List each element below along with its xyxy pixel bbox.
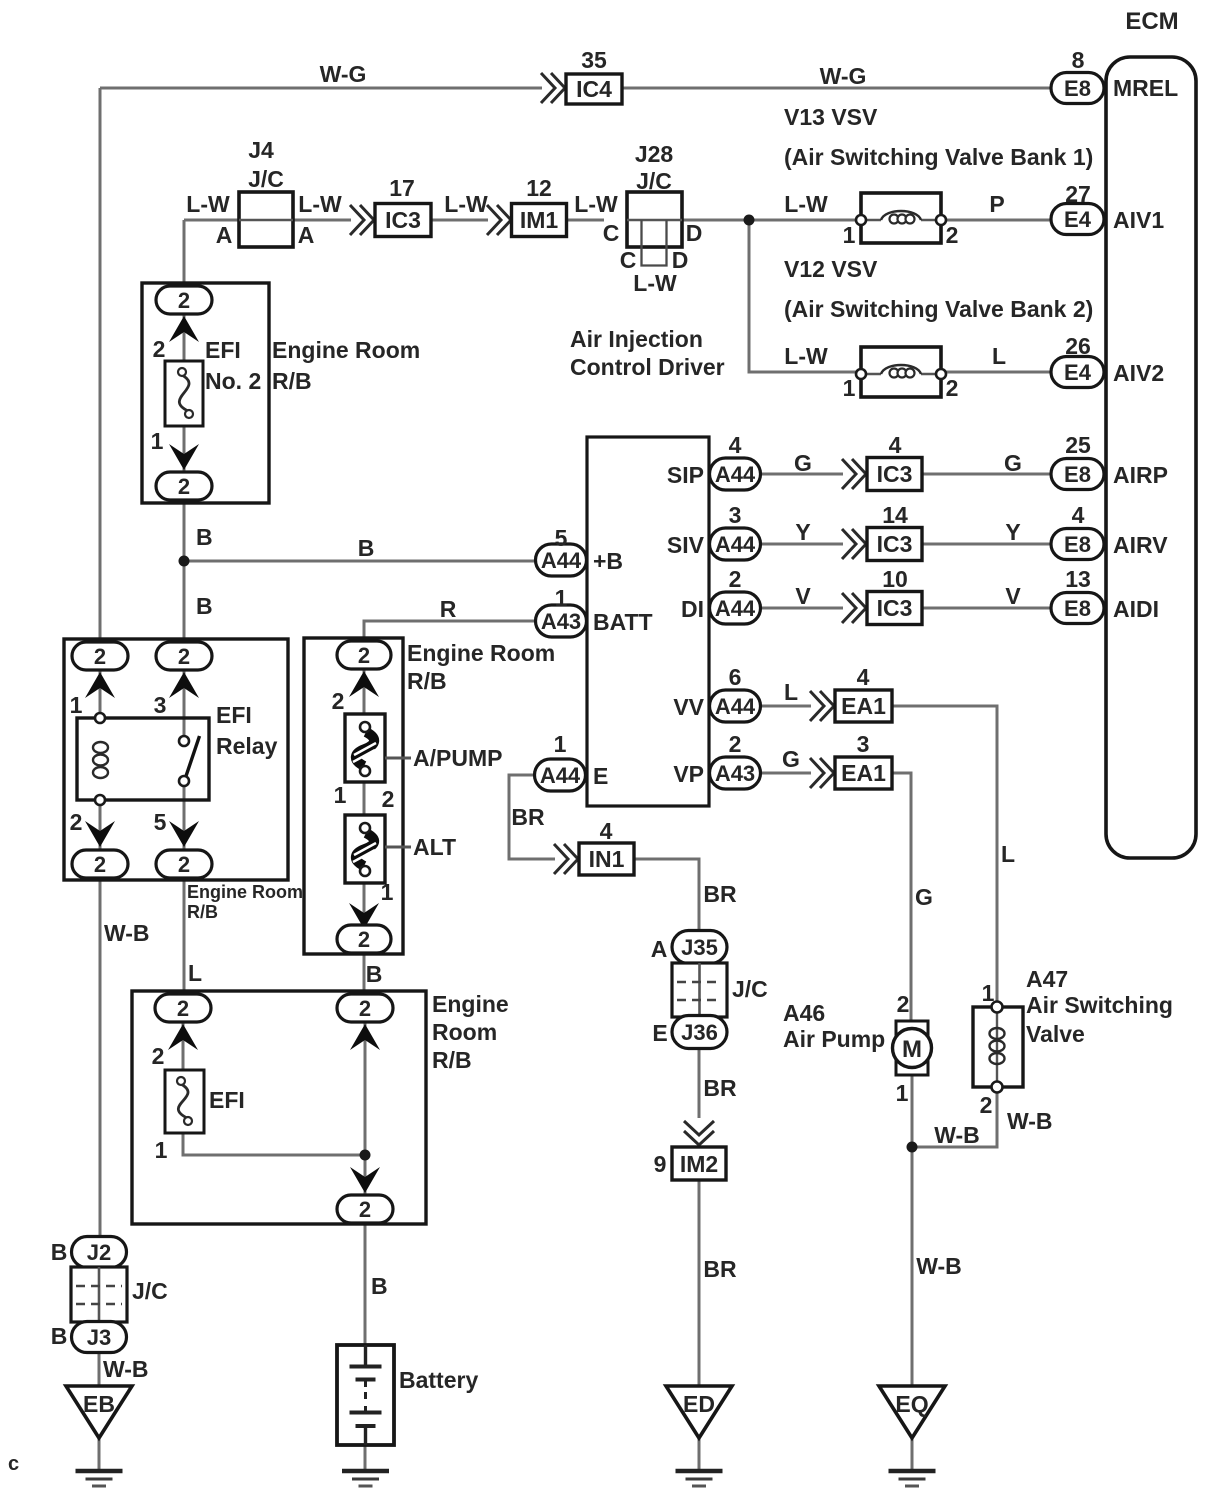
svg-text:35: 35: [581, 47, 607, 73]
svg-text:A44: A44: [715, 462, 756, 487]
connector IM2 pin 9: [654, 1121, 726, 1180]
svg-text:6: 6: [729, 664, 742, 690]
svg-text:IM1: IM1: [520, 207, 559, 233]
ground symbol ED: [676, 1469, 723, 1474]
svg-text:E4: E4: [1064, 207, 1092, 232]
svg-text:1: 1: [381, 879, 394, 905]
svg-text:3: 3: [154, 692, 167, 718]
svg-text:2: 2: [178, 288, 190, 313]
svg-text:Engine Room: Engine Room: [187, 882, 303, 902]
wire W-B: J3 to EB ground: [99, 1351, 149, 1471]
svg-text:1: 1: [843, 375, 856, 401]
svg-text:P: P: [989, 191, 1004, 217]
wire branch to V12 VSV: [749, 220, 1051, 372]
svg-text:2: 2: [152, 1043, 165, 1069]
svg-text:2: 2: [359, 1197, 371, 1222]
svg-text:5: 5: [555, 525, 568, 551]
svg-text:G: G: [1004, 450, 1022, 476]
svg-text:G: G: [915, 884, 933, 910]
connector A44 pin 3 (SIV): [710, 502, 761, 560]
connector E8 pin 13 AIDI: [1051, 566, 1159, 624]
svg-text:2: 2: [178, 852, 190, 877]
junction connector J28 J/C: [603, 141, 703, 296]
svg-text:2: 2: [980, 1092, 993, 1118]
fuse block Engine Room R/B with EFI fuse: [132, 991, 509, 1224]
ground ED: [666, 1386, 732, 1438]
svg-text:1: 1: [155, 1137, 168, 1163]
connector A44 pin 4 (SIP): [710, 432, 761, 490]
svg-text:1: 1: [70, 692, 83, 718]
svg-text:G: G: [782, 746, 800, 772]
svg-text:2: 2: [178, 474, 190, 499]
svg-text:2: 2: [70, 809, 83, 835]
svg-text:ALT: ALT: [413, 834, 456, 860]
svg-text:R/B: R/B: [272, 368, 312, 394]
svg-text:1: 1: [843, 222, 856, 248]
ground EB: [66, 1386, 132, 1438]
svg-text:Relay: Relay: [216, 733, 278, 759]
svg-text:1: 1: [896, 1080, 909, 1106]
svg-text:5: 5: [154, 809, 167, 835]
svg-text:1: 1: [334, 782, 347, 808]
junction connector J3: [51, 1322, 127, 1353]
svg-text:A46: A46: [783, 1000, 825, 1026]
svg-text:3: 3: [857, 731, 870, 757]
svg-text:L-W: L-W: [784, 343, 828, 369]
wire EQ ground lead: [911, 1438, 914, 1471]
svg-text:Air Pump: Air Pump: [783, 1026, 885, 1052]
svg-text:L: L: [784, 679, 798, 705]
ground symbol below battery: [342, 1469, 389, 1474]
svg-text:R: R: [440, 596, 457, 622]
connector A44 pin 1 (E): [535, 731, 586, 791]
svg-text:W-B: W-B: [103, 1356, 149, 1382]
svg-text:2: 2: [729, 731, 742, 757]
solenoid V13 VSV (Air Switching Valve Bank 1): [784, 104, 1093, 248]
wire BR: J36 to IM2 to ED: [699, 1048, 737, 1386]
svg-text:2: 2: [332, 688, 345, 714]
svg-text:BR: BR: [703, 1075, 737, 1101]
connector A44 pin 2 (DI): [710, 566, 761, 624]
svg-text:Y: Y: [1005, 519, 1020, 545]
svg-text:2: 2: [358, 927, 370, 952]
svg-text:R/B: R/B: [187, 902, 218, 922]
svg-text:ECM: ECM: [1125, 8, 1178, 35]
svg-text:AIV2: AIV2: [1113, 360, 1164, 386]
svg-text:Control Driver: Control Driver: [570, 354, 725, 380]
wire W-G from EFI relay to IC4 and ECM MREL: [100, 61, 1051, 89]
svg-text:EA1: EA1: [841, 693, 886, 719]
svg-text:A43: A43: [715, 761, 755, 786]
svg-text:W-G: W-G: [320, 61, 367, 87]
svg-text:L-W: L-W: [574, 191, 618, 217]
svg-text:B: B: [371, 1273, 388, 1299]
connector E8 pin 4 AIRV: [1051, 502, 1168, 560]
connector IC3 pin 17: [350, 175, 431, 237]
svg-text:A/PUMP: A/PUMP: [413, 745, 502, 771]
svg-text:AIV1: AIV1: [1113, 207, 1164, 233]
svg-text:IC4: IC4: [576, 76, 612, 102]
svg-text:B: B: [51, 1323, 68, 1349]
svg-text:AIRV: AIRV: [1113, 532, 1168, 558]
junction node W-B: [907, 1142, 918, 1153]
junction connector J35: [651, 931, 727, 964]
svg-text:17: 17: [389, 175, 415, 201]
svg-text:(Air Switching Valve Bank 1): (Air Switching Valve Bank 1): [784, 144, 1093, 170]
svg-text:C: C: [603, 220, 620, 246]
junction connector J2: [51, 1237, 127, 1268]
svg-text:J3: J3: [87, 1325, 111, 1350]
svg-text:Engine Room: Engine Room: [407, 640, 555, 666]
svg-text:Battery: Battery: [399, 1367, 478, 1393]
svg-text:R/B: R/B: [407, 668, 447, 694]
svg-text:2: 2: [897, 991, 910, 1017]
svg-text:J/C: J/C: [248, 166, 284, 192]
svg-text:A44: A44: [715, 532, 756, 557]
svg-text:J35: J35: [681, 935, 718, 960]
connector A43 pin 1 (BATT): [536, 585, 587, 637]
connector E8 pin 25 AIRP: [1051, 432, 1168, 490]
wire G: SIP to IC3 to AIRP: [760, 450, 1051, 476]
svg-text:26: 26: [1065, 333, 1091, 359]
connector IC3 pin 14 (AIRV row): [842, 502, 922, 561]
IC box Air Injection Control Driver: [570, 326, 725, 806]
svg-text:V13 VSV: V13 VSV: [784, 104, 878, 130]
svg-text:4: 4: [857, 664, 870, 690]
relay EFI Relay assembly: [64, 639, 303, 922]
svg-text:1: 1: [151, 428, 164, 454]
wire L: VV to EA1 to A47 valve: [760, 679, 1015, 1002]
svg-text:BATT: BATT: [593, 609, 653, 635]
svg-text:V12 VSV: V12 VSV: [784, 256, 878, 282]
svg-text:EB: EB: [83, 1391, 115, 1417]
svg-text:E8: E8: [1064, 76, 1091, 101]
connector E8 pin 8 MREL: [1051, 47, 1178, 104]
svg-text:W-B: W-B: [1007, 1108, 1053, 1134]
ground symbol EQ: [889, 1469, 936, 1474]
svg-text:W-B: W-B: [916, 1253, 962, 1279]
svg-text:+B: +B: [593, 548, 623, 574]
connector A44 pin 6 (VV): [710, 664, 761, 722]
svg-text:2: 2: [729, 566, 742, 592]
svg-text:ED: ED: [683, 1391, 715, 1417]
svg-text:Room: Room: [432, 1019, 497, 1045]
junction node at J28 output: [744, 215, 755, 226]
wire V: DI to IC3 to AIDI: [760, 583, 1051, 609]
svg-text:E4: E4: [1064, 360, 1092, 385]
svg-text:10: 10: [882, 566, 908, 592]
svg-text:(Air Switching Valve Bank 2): (Air Switching Valve Bank 2): [784, 296, 1093, 322]
svg-text:E8: E8: [1064, 596, 1091, 621]
svg-text:G: G: [794, 450, 812, 476]
svg-text:A: A: [651, 936, 668, 962]
relay block EFI No.2 Engine Room R/B: [142, 283, 420, 503]
svg-text:B: B: [51, 1239, 68, 1265]
fuse block Engine Room R/B with A/PUMP fuse and ALT fusible link: [304, 638, 555, 954]
svg-text:2: 2: [358, 643, 370, 668]
svg-text:L-W: L-W: [784, 191, 828, 217]
wire ED ground lead: [698, 1438, 701, 1471]
svg-text:E8: E8: [1064, 532, 1091, 557]
solenoid A47 Air Switching Valve: [973, 966, 1173, 1118]
wire Y: SIV to IC3 to AIRV: [760, 519, 1051, 545]
wire W-B: air pump to EQ ground: [912, 1075, 980, 1386]
svg-text:Y: Y: [795, 519, 810, 545]
svg-text:2: 2: [946, 375, 959, 401]
connector E4 pin 27 AIV1: [1051, 181, 1164, 235]
wire L-W row J4 to VSVs: [184, 191, 1051, 220]
ground symbol EB: [76, 1469, 123, 1474]
svg-text:A: A: [298, 222, 315, 248]
svg-text:2: 2: [946, 222, 959, 248]
svg-text:E8: E8: [1064, 462, 1091, 487]
svg-text:4: 4: [600, 818, 613, 844]
svg-text:EFI: EFI: [216, 702, 252, 728]
svg-text:2: 2: [359, 996, 371, 1021]
connector IM1 pin 12: [487, 175, 567, 237]
svg-text:IN1: IN1: [589, 846, 625, 872]
svg-text:J/C: J/C: [636, 168, 672, 194]
connector EA1 pin 4 (VV row): [810, 664, 892, 722]
junction connector J35/J36 J/C block: [672, 963, 768, 1017]
svg-text:13: 13: [1065, 566, 1091, 592]
connector EA1 pin 3 (VP row): [810, 731, 892, 789]
svg-text:4: 4: [889, 432, 902, 458]
svg-text:SIP: SIP: [667, 462, 704, 488]
svg-text:Valve: Valve: [1026, 1021, 1085, 1047]
svg-text:2: 2: [94, 852, 106, 877]
svg-text:L: L: [188, 960, 202, 986]
svg-text:12: 12: [526, 175, 552, 201]
svg-text:27: 27: [1065, 181, 1091, 207]
svg-text:W-B: W-B: [104, 920, 150, 946]
connector A43 pin 2 (VP): [710, 731, 761, 789]
junction node B branch: [179, 556, 190, 567]
svg-text:J/C: J/C: [732, 976, 768, 1002]
svg-text:c: c: [8, 1453, 19, 1475]
svg-text:A44: A44: [715, 596, 756, 621]
svg-text:J4: J4: [248, 137, 274, 163]
svg-text:BR: BR: [703, 881, 737, 907]
svg-text:BR: BR: [703, 1256, 737, 1282]
svg-text:Air Injection: Air Injection: [570, 326, 703, 352]
svg-text:J/C: J/C: [132, 1278, 168, 1304]
svg-text:B: B: [358, 535, 375, 561]
svg-text:A43: A43: [541, 609, 581, 634]
svg-text:W-B: W-B: [934, 1122, 980, 1148]
svg-text:A44: A44: [541, 548, 582, 573]
svg-text:1: 1: [554, 731, 567, 757]
svg-text:2: 2: [94, 644, 106, 669]
svg-text:W-G: W-G: [820, 63, 867, 89]
svg-text:VP: VP: [673, 761, 704, 787]
wire vertical main feed x=100 (W-B below relay): [100, 88, 150, 1238]
junction connector J4 J/C: [216, 137, 315, 248]
svg-text:DI: DI: [681, 596, 704, 622]
svg-text:AIDI: AIDI: [1113, 596, 1159, 622]
ground EQ: [879, 1386, 945, 1438]
svg-text:2: 2: [382, 786, 395, 812]
svg-text:25: 25: [1065, 432, 1091, 458]
svg-text:E: E: [652, 1020, 667, 1046]
wire B: lower R/B to battery: [365, 1223, 388, 1471]
svg-text:Engine: Engine: [432, 991, 509, 1017]
svg-text:EFI: EFI: [205, 337, 241, 363]
svg-text:B: B: [196, 593, 213, 619]
svg-text:2: 2: [178, 644, 190, 669]
svg-text:E: E: [593, 763, 608, 789]
svg-text:L-W: L-W: [444, 191, 488, 217]
svg-text:SIV: SIV: [667, 532, 705, 558]
junction connector J2/J3 J/C block: [71, 1267, 168, 1322]
svg-text:A44: A44: [540, 763, 581, 788]
svg-text:2: 2: [177, 996, 189, 1021]
svg-text:4: 4: [1072, 502, 1085, 528]
svg-text:M: M: [902, 1036, 922, 1063]
svg-text:A: A: [216, 222, 233, 248]
svg-text:1: 1: [555, 585, 568, 611]
svg-text:A47: A47: [1026, 966, 1068, 992]
svg-text:B: B: [196, 524, 213, 550]
svg-text:3: 3: [729, 502, 742, 528]
svg-text:IC3: IC3: [877, 461, 913, 487]
svg-text:MREL: MREL: [1113, 75, 1178, 101]
wire L: relay to lower R/B: [184, 670, 202, 994]
svg-text:J28: J28: [635, 141, 674, 167]
svg-text:L-W: L-W: [186, 191, 230, 217]
junction connector J36: [652, 1016, 727, 1049]
wire W-B: valve pin2 to junction: [912, 1092, 1053, 1147]
svg-text:9: 9: [654, 1151, 667, 1177]
wire B: EFI No.2 to relay and +B: [184, 220, 536, 642]
svg-text:2: 2: [153, 336, 166, 362]
svg-text:B: B: [366, 961, 383, 987]
wire B: upper R/B to lower R/B: [364, 953, 382, 994]
svg-text:IC3: IC3: [877, 595, 913, 621]
svg-text:No. 2: No. 2: [205, 368, 261, 394]
svg-text:L: L: [992, 343, 1006, 369]
ECM module: [1106, 8, 1196, 858]
svg-text:J2: J2: [87, 1240, 111, 1265]
connector IC3 pin 4 (AIRP row): [842, 432, 922, 491]
svg-text:AIRP: AIRP: [1113, 462, 1168, 488]
svg-text:EFI: EFI: [209, 1087, 245, 1113]
motor A46 Air Pump: [783, 991, 932, 1106]
svg-text:14: 14: [882, 502, 908, 528]
svg-text:L-W: L-W: [633, 270, 677, 296]
svg-text:8: 8: [1072, 47, 1085, 73]
svg-text:EQ: EQ: [895, 1391, 928, 1417]
svg-text:V: V: [1005, 583, 1021, 609]
svg-text:L: L: [1001, 841, 1015, 867]
svg-text:4: 4: [729, 432, 742, 458]
wire BR: E to IN1 to J35: [509, 775, 737, 931]
connector IC3 pin 10 (AIDI row): [842, 566, 922, 625]
svg-text:IM2: IM2: [680, 1151, 718, 1177]
connector E4 pin 26 AIV2: [1051, 333, 1164, 388]
svg-text:J36: J36: [681, 1020, 718, 1045]
svg-text:Engine Room: Engine Room: [272, 337, 420, 363]
svg-text:EA1: EA1: [841, 760, 886, 786]
battery: [337, 1345, 478, 1445]
svg-text:Air Switching: Air Switching: [1026, 992, 1173, 1018]
wire G: VP to EA1 to air pump: [760, 746, 933, 1021]
svg-text:A44: A44: [715, 694, 756, 719]
svg-text:VV: VV: [673, 694, 704, 720]
svg-text:D: D: [686, 220, 703, 246]
svg-text:R/B: R/B: [432, 1047, 472, 1073]
solenoid V12 VSV (Air Switching Valve Bank 2): [784, 256, 1093, 401]
svg-text:V: V: [795, 583, 811, 609]
wire R: Engine Room R/B to BATT: [364, 596, 536, 641]
svg-text:L-W: L-W: [298, 191, 342, 217]
svg-text:1: 1: [982, 980, 995, 1006]
connector A44 pin 5 (+B): [536, 525, 587, 576]
svg-text:IC3: IC3: [877, 531, 913, 557]
svg-text:BR: BR: [511, 804, 545, 830]
connector IC4 pin 35: [541, 47, 622, 104]
connector IN1 pin 4: [554, 818, 634, 875]
svg-text:IC3: IC3: [385, 207, 421, 233]
